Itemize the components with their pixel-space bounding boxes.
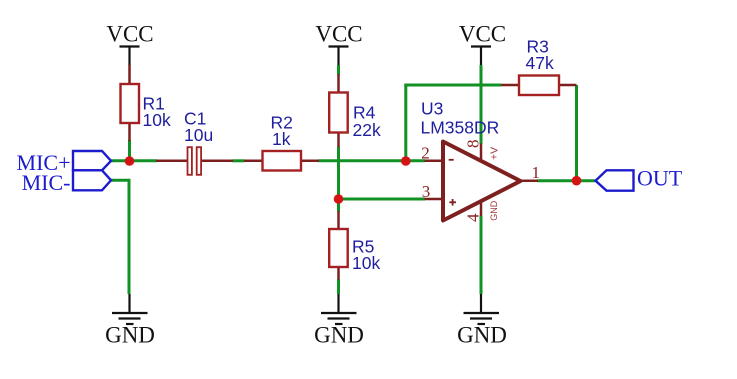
- svg-text:+V: +V: [489, 147, 501, 160]
- svg-text:VCC: VCC: [459, 22, 506, 47]
- svg-text:GND: GND: [314, 323, 364, 348]
- svg-text:LM358DR: LM358DR: [421, 118, 500, 138]
- svg-text:GND: GND: [105, 323, 155, 348]
- svg-text:4: 4: [464, 213, 483, 222]
- svg-text:47k: 47k: [526, 53, 554, 73]
- svg-text:VCC: VCC: [315, 22, 362, 47]
- svg-text:22k: 22k: [353, 120, 381, 140]
- svg-text:GND: GND: [489, 200, 499, 221]
- svg-text:10k: 10k: [352, 253, 380, 273]
- svg-text:3: 3: [422, 182, 431, 201]
- svg-text:8: 8: [464, 140, 483, 149]
- svg-text:1: 1: [532, 163, 541, 182]
- svg-text:OUT: OUT: [637, 166, 683, 191]
- svg-text:2: 2: [421, 144, 430, 163]
- svg-text:U3: U3: [421, 99, 443, 119]
- svg-text:10k: 10k: [143, 110, 171, 130]
- svg-text:VCC: VCC: [106, 22, 153, 47]
- svg-text:GND: GND: [457, 323, 507, 348]
- svg-text:MIC-: MIC-: [22, 170, 71, 195]
- svg-text:10u: 10u: [184, 125, 213, 145]
- svg-text:1k: 1k: [272, 129, 291, 149]
